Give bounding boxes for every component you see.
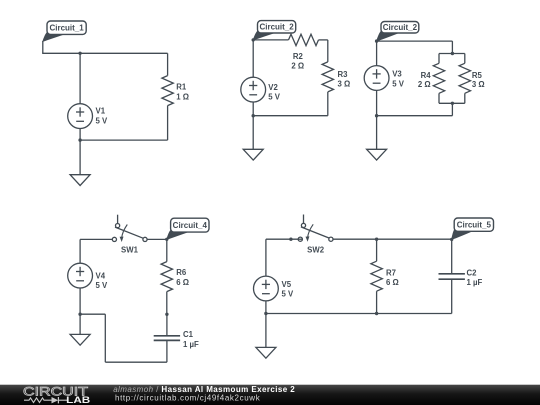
svg-text:R2: R2 [293, 52, 304, 61]
svg-text:5 V: 5 V [282, 290, 295, 299]
svg-text:R6: R6 [176, 268, 187, 277]
svg-text:Circuit_5: Circuit_5 [457, 220, 492, 229]
svg-text:Circuit_2: Circuit_2 [259, 23, 294, 32]
svg-text:V5: V5 [282, 280, 292, 289]
svg-text:R7: R7 [386, 269, 396, 278]
svg-text:R4: R4 [421, 71, 432, 80]
svg-text:5 V: 5 V [268, 93, 281, 102]
svg-text:1 Ω: 1 Ω [176, 92, 189, 101]
svg-text:5 V: 5 V [96, 281, 109, 290]
svg-text:1 µF: 1 µF [467, 278, 483, 287]
svg-text:3 Ω: 3 Ω [338, 80, 351, 89]
svg-text:C1: C1 [183, 330, 194, 339]
svg-text:3 Ω: 3 Ω [472, 80, 485, 89]
svg-text:6 Ω: 6 Ω [386, 278, 399, 287]
svg-text:SW1: SW1 [121, 246, 139, 255]
svg-text:C2: C2 [467, 269, 478, 278]
svg-text:5 V: 5 V [392, 79, 405, 88]
svg-text:Circuit_1: Circuit_1 [49, 24, 84, 33]
svg-text:2 Ω: 2 Ω [418, 80, 431, 89]
svg-text:V2: V2 [268, 83, 278, 92]
svg-text:1 µF: 1 µF [183, 340, 199, 349]
svg-text:Circuit_2: Circuit_2 [383, 23, 418, 32]
svg-text:5 V: 5 V [96, 117, 109, 126]
svg-text:SW2: SW2 [307, 245, 325, 254]
svg-text:V3: V3 [392, 70, 402, 79]
svg-text:LAB: LAB [66, 395, 91, 405]
svg-text:R1: R1 [176, 83, 187, 92]
svg-text:http://circuitlab.com/cj49f4ak: http://circuitlab.com/cj49f4ak2cuwk [115, 393, 261, 402]
svg-text:V4: V4 [96, 271, 106, 280]
svg-text:R3: R3 [338, 70, 349, 79]
svg-text:2 Ω: 2 Ω [291, 62, 304, 71]
svg-text:R5: R5 [472, 71, 483, 80]
svg-text:6 Ω: 6 Ω [176, 278, 189, 287]
svg-text:Circuit_4: Circuit_4 [173, 221, 208, 230]
svg-text:V1: V1 [96, 107, 106, 116]
